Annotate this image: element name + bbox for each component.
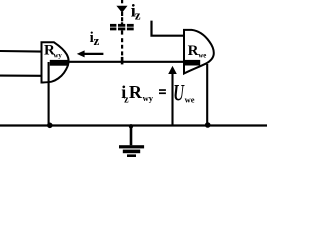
wire dropper from stage1 bar to rail — [48, 62, 50, 126]
voltage arrow Uwe (up) — [171, 74, 173, 126]
resistor bar Rwe — [184, 60, 200, 66]
wire down from stage 2 to rail — [206, 64, 208, 126]
junction node ground — [129, 124, 133, 128]
svg-text:we: we — [198, 52, 206, 59]
ground symbol — [130, 127, 133, 146]
dashed current source iz branch: top dash — [121, 0, 123, 3]
arrow down on dashed branch — [116, 6, 127, 13]
svg-text:R: R — [129, 82, 143, 102]
junction node stage1 — [47, 123, 53, 129]
svg-text:U: U — [173, 81, 184, 106]
svg-text:wy: wy — [54, 52, 63, 59]
dashed branch below source symbol — [121, 30, 123, 34]
wire L from top to stage 2 input — [152, 21, 185, 36]
current arrow iz into stage 1 — [82, 53, 103, 55]
svg-text:R: R — [188, 43, 199, 59]
wire upper input left — [0, 50, 42, 53]
current source symbol (dashed double bar) row 2 — [110, 28, 116, 31]
dashed branch junction at node wire — [121, 57, 124, 65]
wire main node (stage1 output to stage2 input) — [68, 61, 185, 63]
svg-text:wy: wy — [143, 93, 154, 103]
svg-text:we: we — [185, 95, 195, 105]
ground rail — [0, 124, 267, 126]
stage 1 output symbol outline (D-shape) — [42, 42, 69, 82]
svg-text:z: z — [135, 8, 141, 23]
stage 2 input symbol outline (D-shape) — [184, 30, 214, 74]
equation term Uwe — [173, 81, 184, 106]
equation equals sign — [159, 89, 166, 91]
dash above source symbol — [121, 17, 123, 21]
junction node stage2 — [205, 122, 211, 128]
wire lower input left — [0, 75, 42, 77]
svg-text:z: z — [94, 33, 100, 48]
resistor bar Rwy (current-source bar) — [50, 60, 69, 66]
current source symbol (dashed double bar) row 1 — [110, 24, 116, 27]
